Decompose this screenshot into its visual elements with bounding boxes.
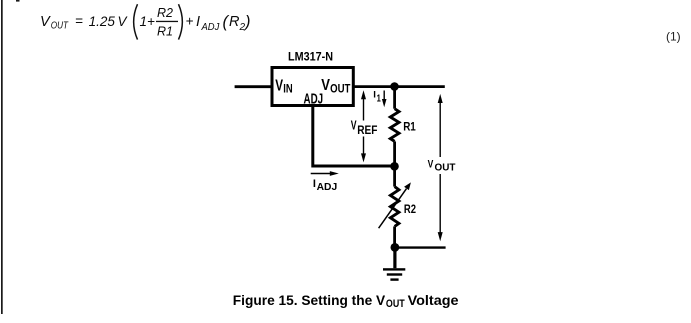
svg-text:=: = (75, 14, 83, 29)
svg-text:(1): (1) (666, 29, 681, 43)
svg-text:ADJ: ADJ (317, 181, 338, 193)
svg-text:OUT: OUT (435, 163, 457, 174)
svg-text:REF: REF (357, 123, 377, 137)
svg-text:1.25: 1.25 (89, 14, 116, 29)
svg-text:Voltage: Voltage (408, 293, 459, 308)
page rule (left border line) (1, 0, 3, 314)
label IADJ (313, 178, 337, 193)
caption: Figure 15. Setting the VOUT Voltage (233, 293, 459, 310)
arrow I1 (current direction, down) (382, 91, 387, 108)
svg-text:V: V (275, 78, 283, 95)
svg-text:R1: R1 (157, 25, 173, 39)
svg-text:IN: IN (283, 82, 292, 96)
wire: input to VIN (235, 85, 272, 88)
regulator U1 LM317-N (box) (272, 68, 353, 106)
svg-text:I: I (313, 178, 316, 190)
svg-text:V: V (428, 159, 434, 171)
wire: VOUT to output node and beyond (353, 85, 445, 88)
svg-text:ADJ: ADJ (304, 91, 324, 107)
svg-text:OUT: OUT (386, 298, 405, 310)
svg-text:R2: R2 (157, 6, 173, 20)
wire: ADJ pin down and across to node (313, 107, 395, 166)
svg-text:ADJ: ADJ (201, 22, 221, 33)
label VOUT (output voltage) (428, 159, 456, 174)
svg-text:1: 1 (377, 94, 382, 105)
svg-text:I: I (196, 14, 200, 30)
wire: node to R2 top (393, 166, 396, 186)
wire: bottom node to right (395, 246, 446, 248)
wire: node to R1 top (393, 87, 396, 109)
svg-text:Figure 15. Setting the V: Figure 15. Setting the V (233, 293, 386, 308)
wire: R1 bottom to ADJ node (393, 141, 396, 166)
svg-text:OUT: OUT (330, 82, 351, 96)
arrow VREF (double-headed measurement arrow) (361, 90, 366, 162)
svg-text:R2: R2 (404, 202, 416, 216)
label VREF (351, 119, 378, 138)
svg-text:1+: 1+ (140, 14, 156, 29)
ground (383, 247, 405, 280)
node: bottom junction (dot) (391, 243, 400, 252)
R2 variable arrow (diagonal) (379, 182, 411, 228)
equation (1): VOUT = 1.25 V (1 + R2/R1) + IADJ (R2) (40, 4, 251, 39)
svg-text:V: V (40, 14, 51, 30)
arrow VOUT (double-headed measurement arrow, right side) (438, 94, 443, 241)
svg-text:R: R (229, 14, 240, 30)
svg-text:V: V (351, 119, 357, 133)
resistor R2 (zigzag, variable) (390, 187, 399, 227)
node: output junction (dot) (390, 82, 399, 91)
resistor R1 (zigzag) (390, 109, 399, 142)
svg-text:OUT: OUT (51, 20, 69, 31)
label I1 (373, 90, 381, 105)
pin label VIN (275, 78, 293, 96)
pin label VOUT (321, 77, 350, 95)
svg-text:): ) (243, 13, 251, 31)
svg-text:R1: R1 (403, 120, 416, 134)
arrow IADJ (current direction, right) (311, 171, 339, 176)
svg-text:+: + (186, 14, 194, 29)
wire: R2 bottom to ground node (393, 226, 396, 247)
svg-text:LM317-N: LM317-N (288, 49, 333, 63)
node: ADJ junction (dot) (390, 162, 399, 171)
